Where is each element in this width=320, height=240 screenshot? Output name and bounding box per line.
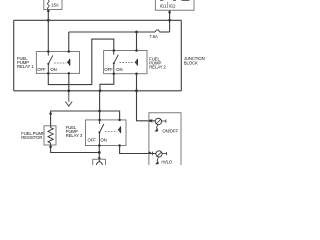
connector dot [49,112,52,115]
svg-text:ON/OFF: ON/OFF [162,128,178,133]
wire relay1 coil to bottom rail [68,73,70,90]
svg-text:HI/LO: HI/LO [161,159,172,164]
wire relay2 switch output to bottom rail [100,74,114,91]
wire relay2 coil feed [136,32,138,51]
fuse F2 7.5A rail [69,30,170,39]
relay3 dashed link [105,131,117,133]
relay3 coil [118,126,121,133]
junction dot [67,89,70,92]
junction dot [168,19,171,22]
relay2 pin dots [113,49,116,52]
svg-text:OFF: OFF [37,67,46,72]
svg-text:ON: ON [101,138,107,143]
wire bottom long rail [14,90,182,92]
svg-text:ON: ON [116,67,122,72]
wire relay1 switch output to relay2 switch (over-jump) [48,39,114,85]
junction dot [135,31,138,34]
relay 1 box [36,52,79,74]
relay3 pin dots [98,119,101,122]
wire left side drop [13,20,15,91]
junction dot node A [98,110,101,113]
connector dot [49,145,52,148]
ignition switch box IG1 IG2 [155,0,194,10]
svg-text:15A: 15A [51,3,59,8]
relay1 dashed link [54,62,67,64]
connector at ON/OFF wire [149,120,152,123]
wire resistor bottom to pump feed [51,145,100,153]
label FUEL PUMP RESISTOR [21,131,45,140]
label FUEL PUMP RELAY 1 [17,56,34,69]
wire relay3 coil to HI/LO switch [120,146,156,154]
label JUNCTION BLOCK [184,56,205,65]
relay2 dashed link [120,61,135,63]
wire rail down to relay1 coil [68,32,70,52]
svg-text:OFF: OFF [88,138,97,143]
svg-text:OFF: OFF [104,67,113,72]
junction dot [135,89,138,92]
relay1 coil [67,59,70,66]
svg-text:BLOCK: BLOCK [184,61,198,66]
wire main top rail [14,19,182,21]
ground [65,91,72,106]
svg-text:ON: ON [50,67,56,72]
junction block box [149,113,181,166]
fuel pump resistor [44,126,56,145]
relay1 switch [48,52,53,74]
wire relay3 switch to fuel pump [98,146,100,162]
pump pin dot [98,157,101,160]
wire jog to relay 3 coil [100,111,120,120]
ON/OFF switch [155,118,166,131]
fuse F1 15A [44,0,62,10]
wire from IG box down to 7.5A rail [169,10,171,32]
svg-text:IG2: IG2 [169,3,176,8]
svg-text:IG1: IG1 [160,3,167,8]
label FUEL PUMP RELAY 2 [149,57,166,70]
HI/LO switch [155,151,166,165]
svg-text:RELAY 3: RELAY 3 [66,133,83,138]
relay 2 box [104,51,147,74]
svg-text:RESISTOR: RESISTOR [21,135,42,140]
relay3 switch [99,120,104,146]
connector dot [47,10,50,13]
fuel pump motor [93,159,106,167]
junction dot [98,151,101,154]
relay2 coil [135,59,138,66]
wire resistor top [51,111,100,126]
relay2 switch [114,51,119,74]
svg-text:RELAY 1: RELAY 1 [17,64,34,69]
svg-text:7.5A: 7.5A [149,34,158,39]
relay 3 box [86,120,127,146]
connector dot [168,11,171,14]
svg-text:RELAY 2: RELAY 2 [149,65,166,70]
connector at HI/LO wire [148,152,151,155]
junction dot [47,19,50,22]
wire relay2 coil down to ON/OFF switch [137,74,156,121]
wire from 15A fuse to relay 1 [47,10,49,52]
wire bottom rail down to relay 3 switch [99,91,101,120]
relay1 pin dots [47,50,50,53]
junction dot [99,89,102,92]
wire right side drop [180,20,182,91]
label FUEL PUMP RELAY 3 [66,125,83,138]
